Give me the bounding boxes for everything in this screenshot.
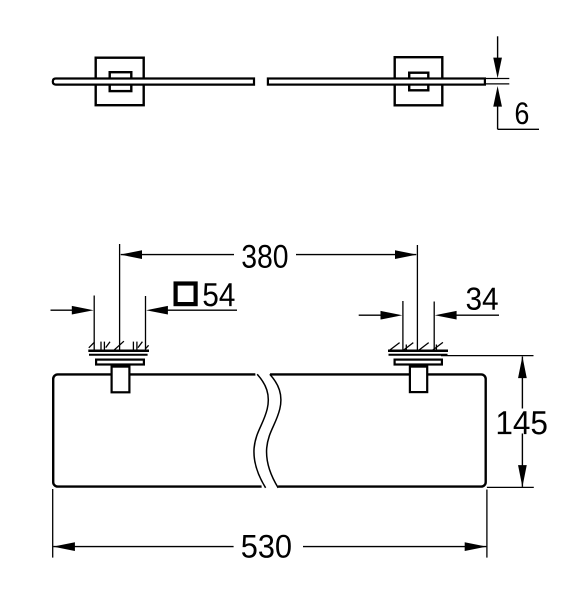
dim 6: lower dim line + arrow [493, 86, 502, 107]
break line left [254, 374, 268, 488]
left bracket plate [96, 360, 144, 365]
top view: glass bar right segment [268, 79, 485, 85]
dim 530: arrows [53, 542, 75, 551]
left bracket wall hatching [89, 341, 149, 350]
dim 530: extension lines [52, 489, 54, 558]
dim 6: upper dim line + arrow [497, 36, 499, 60]
dim 6: leader [498, 128, 539, 130]
right bracket flange line [389, 354, 448, 356]
dim 6: label [516, 102, 528, 124]
dim 54: square symbol [176, 284, 196, 305]
top view: right mounting square [395, 57, 443, 105]
dim 6: extension thin lines [486, 78, 509, 80]
top view: left mounting square [96, 58, 144, 105]
dim 380: dim line [121, 254, 234, 256]
right bracket wall line [388, 349, 448, 352]
dim 145: bottom extension line [487, 486, 534, 488]
right bracket wall hatching [389, 342, 443, 350]
break gap erase [255, 371, 278, 490]
dim 380: center extension lines [119, 244, 121, 350]
dim 54: label [204, 283, 235, 306]
top view: right inner plate [409, 73, 428, 91]
dim 145: label [498, 411, 547, 434]
front view: shelf outline [53, 374, 486, 486]
right bracket plate [395, 360, 442, 365]
dim 145: arrows [518, 356, 527, 378]
break line right [267, 374, 281, 488]
dim 34: left arrow [359, 314, 388, 316]
dim 380: arrows [120, 250, 142, 259]
left bracket flange line [89, 354, 148, 356]
dim 34: label [467, 287, 498, 310]
dim 145: dim line [521, 357, 523, 409]
dim 380: label [242, 245, 287, 268]
left bracket stem [112, 367, 130, 393]
dim 530: dim line [53, 546, 233, 548]
top view: glass bar left segment [53, 79, 254, 85]
left bracket wall line [88, 349, 149, 352]
dim 54: extension lines [93, 296, 95, 351]
top view: left inner plate [110, 72, 132, 91]
dim 34: right arrow with leader [448, 314, 499, 316]
dim 54: left arrow [51, 309, 81, 311]
right bracket stem [410, 367, 427, 393]
dim 530: label [242, 535, 291, 558]
dim 54: right arrow with leader [160, 309, 237, 311]
dim 145: top extension line [441, 355, 534, 357]
dim 34: extension lines [402, 301, 404, 351]
